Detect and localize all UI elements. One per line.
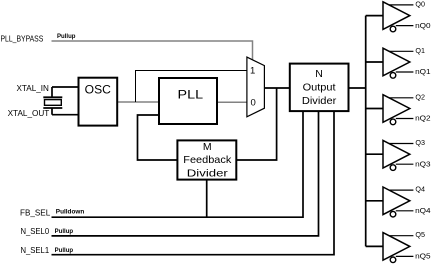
svg-text:Q5: Q5 bbox=[415, 230, 425, 239]
svg-text:Pullup: Pullup bbox=[57, 33, 76, 40]
svg-text:nQ3: nQ3 bbox=[415, 159, 431, 168]
svg-text:nQ4: nQ4 bbox=[415, 206, 431, 215]
svg-text:nQ1: nQ1 bbox=[415, 67, 431, 76]
svg-text:XTAL_OUT: XTAL_OUT bbox=[8, 108, 50, 118]
svg-text:Divider: Divider bbox=[187, 167, 229, 179]
svg-text:Q0: Q0 bbox=[415, 0, 425, 8]
svg-text:Pullup: Pullup bbox=[55, 228, 74, 235]
svg-text:M: M bbox=[203, 141, 212, 153]
svg-text:nQ2: nQ2 bbox=[415, 114, 431, 123]
svg-text:Pullup: Pullup bbox=[55, 247, 74, 254]
svg-text:Output: Output bbox=[303, 82, 336, 94]
svg-text:Feedback: Feedback bbox=[183, 154, 232, 166]
svg-text:nQ5: nQ5 bbox=[415, 252, 431, 261]
svg-text:Divider: Divider bbox=[302, 95, 337, 107]
svg-text:N_SEL0: N_SEL0 bbox=[21, 226, 50, 236]
svg-text:PLL_BYPASS: PLL_BYPASS bbox=[1, 33, 44, 43]
svg-text:Q4: Q4 bbox=[415, 185, 425, 194]
svg-text:FB_SEL: FB_SEL bbox=[20, 207, 50, 217]
svg-text:XTAL_IN: XTAL_IN bbox=[17, 83, 49, 93]
svg-text:N_SEL1: N_SEL1 bbox=[21, 245, 50, 255]
svg-text:N: N bbox=[315, 68, 323, 80]
svg-text:Q1: Q1 bbox=[415, 46, 425, 55]
svg-text:nQ0: nQ0 bbox=[415, 21, 431, 30]
svg-text:OSC: OSC bbox=[85, 85, 111, 97]
svg-text:PLL: PLL bbox=[178, 89, 204, 101]
svg-text:0: 0 bbox=[251, 98, 256, 109]
svg-text:Q2: Q2 bbox=[415, 92, 425, 101]
svg-text:1: 1 bbox=[250, 65, 255, 76]
svg-text:Q3: Q3 bbox=[415, 138, 425, 147]
svg-text:Pulldown: Pulldown bbox=[56, 209, 85, 216]
